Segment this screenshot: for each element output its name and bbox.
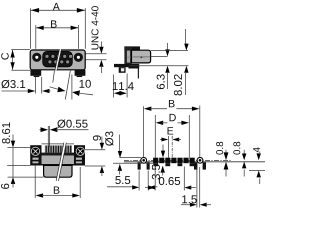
- dimension 11.4 line and arrows: [114, 91, 121, 95]
- dimension A label: [53, 3, 60, 10]
- break line top view: [56, 143, 66, 181]
- dimension B footprint label: [169, 100, 175, 107]
- dimension B extension lines: [35, 25, 37, 49]
- dimension 8.02 reference line: [151, 49, 188, 51]
- side view flange: [124, 46, 131, 66]
- front view flange shell: [30, 50, 85, 70]
- left block slots: [33, 158, 39, 160]
- dimension 8.02 arrows: [185, 29, 187, 44]
- footprint pin pads row 1: [153, 158, 195, 164]
- footprint pin pads row 2 stubs: [153, 163, 194, 166]
- side view boardlock bracket: [114, 64, 129, 67]
- dimension B label: [51, 20, 57, 27]
- dimension 8.61 and 6 arrows: [12, 135, 14, 142]
- footprint lower line: [124, 161, 265, 163]
- dimension 0.8 first arrows: [225, 150, 227, 154]
- dimension 8.02 label: [174, 74, 182, 95]
- dimension 1.5 label: [182, 195, 197, 203]
- dimension E arrows: [160, 139, 163, 141]
- dimension B bottom line and arrows: [36, 193, 44, 197]
- dimension 6.3 label: [157, 74, 165, 89]
- dimension D line and arrows: [156, 121, 164, 125]
- dimension 9 label: [93, 135, 101, 140]
- dimension O3.1 leader and arrows: [2, 90, 30, 92]
- boardlock legs: [138, 162, 141, 169]
- dimension O0.55 extension lines: [47, 126, 49, 147]
- UNC 4-40 thread label: [91, 6, 98, 49]
- dimension 1.5 line and arrows: [181, 204, 191, 206]
- dimension C line: [12, 50, 14, 70]
- break line front view: [55, 49, 62, 71]
- UNC 4-40 callout reference lines: [84, 53, 107, 55]
- dimension 10 degrees arc arrows: [50, 87, 65, 91]
- jackscrew hole right: [74, 53, 83, 62]
- dimension 0.8 first label: [216, 142, 223, 155]
- top view D-shell: [44, 165, 72, 177]
- dimension B line: [36, 27, 78, 29]
- dimension A arrowheads: [31, 8, 39, 13]
- dimension A line: [31, 9, 85, 11]
- dimension 6.3 reference lines: [151, 56, 168, 58]
- side view body: [132, 50, 151, 63]
- boardlock legs right: [194, 162, 197, 169]
- dimension B footprint line and arrows: [144, 107, 152, 111]
- dimension 6 label: [1, 184, 9, 189]
- dimension O3 reference lines: [119, 156, 140, 158]
- boardlock hole right: [197, 157, 203, 163]
- dimension 3.5 arrows: [162, 145, 164, 152]
- UNC 4-40 callout arrows: [100, 42, 102, 49]
- dimension 0.65 extension lines: [154, 167, 156, 191]
- footprint centerline: [124, 159, 232, 161]
- dimension C label: [1, 53, 9, 60]
- top view flange band: [42, 156, 75, 164]
- dimension B arrowheads: [36, 26, 44, 30]
- side view solder pin: [137, 69, 139, 79]
- dimension C reference lines: [11, 49, 30, 51]
- dimension 5.5 label: [115, 176, 130, 184]
- dimension E extension lines: [167, 136, 169, 158]
- D-sub insert: [43, 51, 73, 67]
- dimension C arrowheads: [10, 50, 14, 58]
- dimension 8.61 label: [2, 122, 10, 143]
- dimension D extension lines: [154, 115, 156, 158]
- front view left foot: [30, 70, 41, 76]
- front view right foot: [75, 70, 86, 76]
- dimension 9 reference lines: [85, 149, 105, 151]
- dimension O3.1 label: [1, 80, 25, 88]
- side view insulator lower lip: [129, 64, 140, 69]
- dimension O3 label: [105, 132, 113, 146]
- dimension 10 degrees extension lines: [65, 70, 70, 99]
- dimension 4 arrows: [259, 152, 261, 154]
- dimension 0.8 second arrows: [243, 150, 245, 154]
- dimension B bottom extension lines: [34, 166, 36, 198]
- boardlock hole: [141, 157, 147, 163]
- socket contacts top row: [45, 54, 73, 58]
- dimension B footprint extension lines: [143, 106, 145, 157]
- dimension A extension lines: [30, 8, 32, 49]
- dimension E label: [168, 127, 174, 134]
- dimension 5.5 line and arrows: [107, 186, 133, 188]
- dimension O3 arrows: [119, 135, 121, 152]
- top view left jackscrew block: [30, 145, 41, 165]
- side view top bar: [124, 46, 140, 50]
- dimension 0.65 line and arrows: [145, 187, 150, 189]
- right screw head: [76, 147, 85, 156]
- dimension D label: [170, 114, 176, 121]
- dimension 0.65 label: [159, 177, 180, 185]
- dimension 0.8 second label: [233, 142, 240, 155]
- dimension 4 label: [253, 147, 260, 152]
- dimension 4 reference line: [249, 170, 265, 172]
- dimension B bottom label: [54, 187, 60, 194]
- left screw head: [31, 147, 40, 156]
- top view right jackscrew block: [74, 145, 85, 165]
- side view centerline: [127, 56, 150, 58]
- top view insulator band: [42, 153, 75, 156]
- dimension 11.4 extension lines: [113, 75, 115, 98]
- dimension 9 arrows: [101, 137, 103, 144]
- dimension 11.4 label: [113, 82, 134, 90]
- left reference lines: [7, 147, 30, 149]
- socket contacts bottom row: [48, 60, 70, 64]
- dimension 6.3 arrows: [167, 43, 169, 51]
- dimension O0.55 arrows: [40, 129, 43, 131]
- dimension 1.5 extension lines: [196, 167, 198, 208]
- right block slots: [76, 158, 82, 160]
- dimension 5.5 extension lines: [138, 171, 140, 191]
- jackscrew hole left: [32, 53, 41, 62]
- top view rear edge line: [42, 143, 75, 145]
- top view pin tails: [46, 146, 72, 153]
- dimension O0.55 label: [57, 119, 87, 127]
- dimension 3.5 label: [152, 165, 160, 180]
- dimension 10 label: [80, 80, 91, 88]
- top view pin backdrop: [45, 145, 72, 152]
